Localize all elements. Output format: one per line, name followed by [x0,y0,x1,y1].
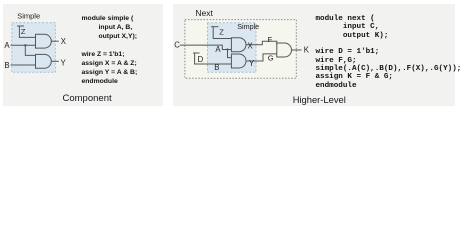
supply tick 1'b1 for wire Z (right) [211,26,219,28]
wire Y output (left) [51,60,59,62]
wire Z (left) [19,26,35,37]
svg-text:A: A [215,45,221,54]
wire K output (right) [292,49,302,51]
svg-text:Z: Z [219,28,224,37]
svg-text:F: F [268,35,273,44]
svg-text:Z: Z [21,27,26,36]
and-gate X = A &amp; Z (left top gate) [36,34,52,48]
port label C (right) [174,40,180,49]
code listing: module simple [82,15,138,87]
svg-text:B: B [4,61,9,70]
wire D to pin B (right) [195,53,232,64]
svg-text:Y: Y [61,58,67,67]
and-gate Y inside instance (right) [231,54,246,68]
caption Higher-Level [293,94,346,105]
wire C into instance pin A (right) [180,45,232,49]
svg-text:A: A [4,41,10,50]
label Z (right) [219,28,224,37]
pin label Y (right instance) [249,59,255,68]
wire A (left) [11,44,36,46]
svg-text:X: X [61,37,67,46]
net label G (right) [268,53,274,62]
wire A branch to Y-gate (left) [25,45,35,55]
label Z (left) [21,27,26,36]
panel: Component (left) [3,4,163,107]
svg-text:B: B [214,63,219,72]
junction dot on wire A (left) [24,44,26,46]
port label A (left) [4,41,10,50]
module box simple (left schematic, dashed blue) [12,23,56,72]
port label K (right) [304,45,310,54]
wire X output (left) [51,40,59,42]
wire Z (right) [213,27,231,39]
label Simple (instance name, right) [237,22,259,31]
label D (right) [198,55,204,64]
svg-text:Y: Y [249,59,255,68]
supply tick 1'b1 for wire Z (left) [17,25,24,27]
wire A branch to Y-gate (right instance) [228,50,232,58]
svg-text:K: K [304,45,310,54]
supply tick 1'b1 for wire D (right) [193,52,200,54]
port label Y (left) [61,58,67,67]
label Next (module name, right) [195,8,213,18]
and-gate K = F &amp; G (right final gate) [277,43,292,57]
wire Y to G (right) [246,54,277,61]
svg-text:Simple: Simple [237,22,259,31]
net label F (right) [268,35,273,44]
caption Component [63,93,112,104]
wire B (left) [11,64,36,66]
pin label B (right instance) [214,63,219,72]
svg-text:Next: Next [195,8,213,18]
and-gate Y = A &amp; B (left bottom gate) [36,54,52,68]
pin label X (right instance) [248,42,254,51]
and-gate X inside instance (right) [231,38,246,52]
panel: Higher-Level (right) [173,4,455,107]
label Simple (module name, left) [17,11,40,20]
module box next (outer dashed box) [185,20,296,79]
module instance box simple (right, dashed blue) [208,23,257,72]
code listing: module next [316,15,462,90]
svg-text:G: G [268,53,274,62]
port label B (left) [4,61,9,70]
port label X (left) [61,37,67,46]
pin label A (right instance) [215,45,221,54]
svg-text:C: C [174,40,180,49]
svg-text:X: X [248,42,254,51]
svg-text:D: D [198,55,204,64]
junction dot on pin-A wire (right) [226,48,228,50]
wire X to F (right) [246,41,277,44]
svg-text:Simple: Simple [17,11,40,20]
